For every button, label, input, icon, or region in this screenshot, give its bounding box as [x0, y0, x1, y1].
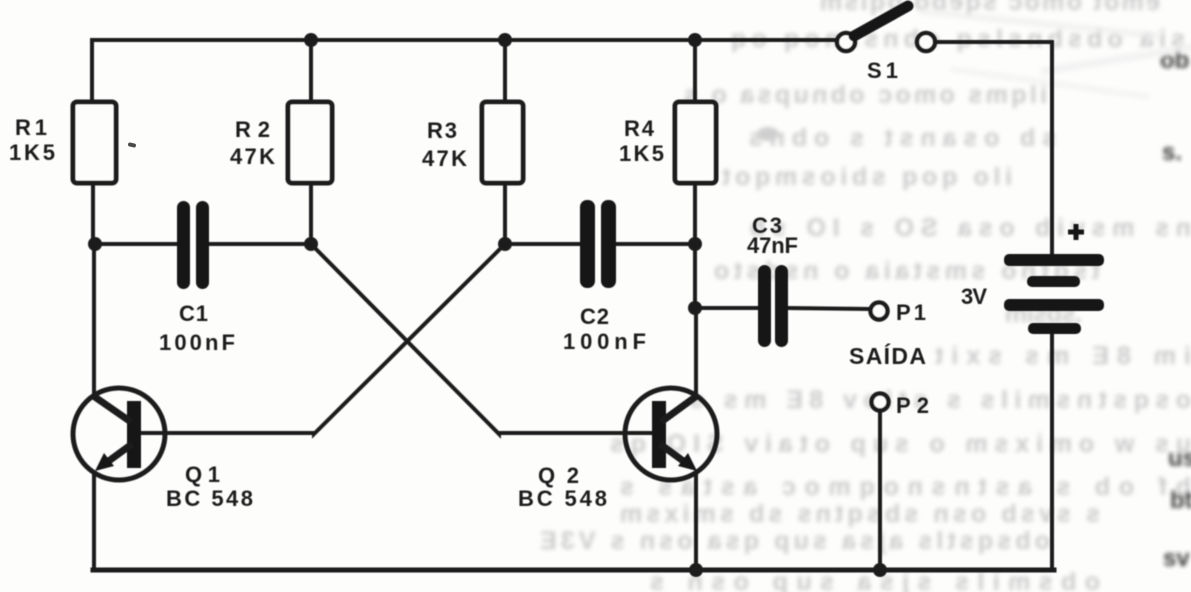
svg-text:Q 1: Q 1 — [185, 462, 220, 487]
wire bottom rail — [93, 568, 1054, 573]
wire cross-coupling R2 node to Q2 base — [311, 244, 652, 434]
svg-text:3V: 3V — [961, 284, 987, 309]
svg-text:C1: C1 — [179, 301, 208, 326]
scan dash near R1 — [128, 142, 137, 148]
wire C2 right to node — [616, 242, 695, 246]
wire C3 node down to Q2 — [694, 308, 698, 395]
svg-text:R 1: R 1 — [15, 115, 47, 140]
wire node to C2 left — [505, 242, 580, 246]
capacitor C1 — [177, 201, 209, 289]
svg-text:R4: R4 — [624, 116, 655, 141]
svg-text:bt: bt — [1170, 487, 1191, 514]
battery plus sign — [1068, 224, 1084, 240]
wire cross-coupling R3 node to Q1 base — [141, 244, 505, 434]
wire battery bottom to bottom rail — [1050, 334, 1054, 570]
svg-text:ilo qoq sbiosmqot: ilo qoq sbiosmqot — [721, 163, 1012, 191]
wire left vertical Q1 emitter to bottom rail — [92, 474, 96, 570]
wire C3 node to C3 left — [696, 306, 758, 310]
svg-text:47nF: 47nF — [747, 233, 798, 258]
svg-text:R 2: R 2 — [235, 117, 270, 142]
terminal P1 — [871, 303, 888, 320]
wire Q2 emitter to bottom rail — [694, 474, 698, 570]
svg-text:C2: C2 — [580, 304, 609, 329]
svg-text:Q 2: Q 2 — [538, 463, 579, 488]
wire R4 node down to C3 node — [693, 244, 697, 308]
resistor R4 — [675, 102, 716, 183]
wire top rail — [92, 40, 835, 102]
capacitor C2 — [580, 200, 616, 288]
node C top rail / R4 — [688, 33, 702, 47]
svg-text:s.: s. — [1162, 139, 1182, 166]
wire left vertical node to Q1 — [92, 244, 96, 395]
svg-text:S 1: S 1 — [867, 58, 898, 83]
transistor Q1 — [73, 388, 165, 480]
svg-text:emot omoc sqebo oqism: emot omoc sqebo oqism — [820, 0, 1160, 16]
node J bottom rail P2 — [873, 563, 887, 577]
svg-text:R3: R3 — [427, 118, 457, 143]
terminal P2 — [872, 394, 889, 411]
bleed-through mirrored text (page verso) — [540, 0, 1191, 592]
svg-text:sv: sv — [1163, 545, 1190, 572]
svg-text:100nF: 100nF — [159, 330, 235, 355]
node F R3 bottom — [498, 237, 512, 251]
resistor R3 — [482, 102, 523, 183]
wire R2 top stub — [309, 40, 313, 102]
svg-text:sb osanst s obns: sb osanst s obns — [749, 124, 1056, 152]
wire R3 bottom to node — [503, 183, 507, 244]
wire C3 right to P1 — [787, 308, 868, 309]
battery B1 3V — [1004, 254, 1104, 334]
transistor Q2 — [625, 388, 717, 480]
wire R4 top stub — [693, 40, 697, 102]
svg-text:us: us — [1168, 445, 1191, 472]
scan smudge — [757, 127, 779, 141]
svg-text:us w omixsm o sup otaiv SIO qs: us w omixsm o sup otaiv SIO qs — [610, 430, 1191, 458]
switch S1 — [837, 6, 935, 51]
wire R4 bottom to node — [693, 183, 697, 244]
svg-text:1K5: 1K5 — [619, 141, 664, 166]
wire P2 down to bottom rail — [878, 413, 882, 570]
node H C3 junction — [688, 301, 702, 315]
wire C1 right to node — [209, 242, 311, 246]
node I bottom rail Q2 — [689, 563, 703, 577]
wire R2 bottom to node — [309, 183, 313, 244]
page-edge ghost fragments — [1160, 47, 1191, 572]
scan streaks top right — [920, 7, 1191, 99]
resistor R2 — [288, 102, 332, 183]
node B top rail / R3 — [498, 33, 512, 47]
node A top rail / R2 — [304, 33, 318, 47]
capacitor C3 — [758, 265, 788, 347]
svg-text:47K: 47K — [422, 146, 467, 171]
svg-text:osqstnsmils s stlov 8E ms s: osqstnsmils s stlov 8E ms s — [690, 386, 1191, 414]
svg-text:1K5: 1K5 — [9, 140, 55, 165]
wire node to C1 left — [95, 242, 177, 246]
resistor R1 — [73, 102, 116, 183]
svg-text:ns msvib osa SO s IO sb: ns msvib osa SO s IO sb — [750, 214, 1191, 242]
wire switch to corner and right vertical down to battery — [936, 42, 1052, 254]
node E R2 bottom — [304, 237, 318, 251]
node G R4 bottom — [688, 237, 702, 251]
wire R3 top stub — [503, 40, 507, 102]
node D R1 bottom — [88, 237, 102, 251]
svg-text:SAÍDA: SAÍDA — [849, 342, 926, 369]
svg-text:47K: 47K — [230, 144, 275, 169]
svg-text:obsqstls ajsa sup qsa osn s V3: obsqstls ajsa sup qsa osn s V3E — [540, 527, 1050, 555]
wire left vertical R1 to node — [91, 183, 95, 244]
